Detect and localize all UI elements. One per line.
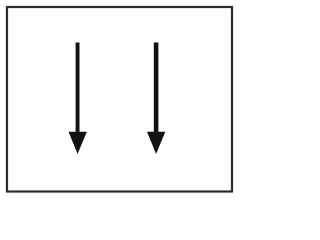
arrow right [147,43,165,155]
arrow left [69,43,87,155]
